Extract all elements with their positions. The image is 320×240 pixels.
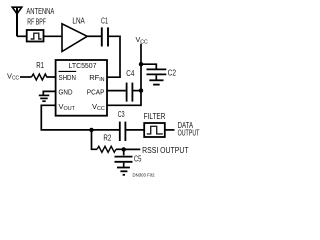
- svg-text:RFIN: RFIN: [89, 73, 104, 83]
- svg-text:C1: C1: [101, 17, 108, 26]
- svg-text:VOUT: VOUT: [59, 102, 76, 112]
- ground (GND pin): [39, 95, 50, 101]
- ground (C2): [149, 80, 163, 84]
- label DATA OUTPUT: [178, 121, 200, 137]
- wire PCAP to C4: [107, 90, 126, 92]
- svg-text:R2: R2: [103, 133, 111, 142]
- wire antenna to BPF: [17, 35, 27, 37]
- RF BPF box: [27, 30, 44, 42]
- svg-text:C4: C4: [126, 69, 134, 78]
- svg-text:C3: C3: [118, 110, 125, 119]
- svg-text:C5: C5: [134, 154, 142, 163]
- wire VOUT down to bottom rail: [41, 105, 91, 130]
- resistor R2: [97, 146, 116, 152]
- capacitor C4: [127, 83, 133, 102]
- node VCC/C2 junction: [139, 62, 143, 66]
- pulse symbol in FILTER: [147, 126, 163, 134]
- wire VCC to R1: [20, 76, 32, 78]
- svg-text:C2: C2: [168, 68, 177, 77]
- svg-text:R1: R1: [36, 61, 44, 70]
- node C4/VCC junction: [139, 88, 143, 92]
- resistor R1: [32, 74, 47, 80]
- svg-text:ANTENNA: ANTENNA: [26, 7, 54, 16]
- op-amp LNA: [62, 24, 87, 52]
- capacitor C2: [147, 69, 167, 74]
- svg-text:PCAP: PCAP: [87, 87, 105, 96]
- node VOUT junction: [89, 128, 93, 132]
- capacitor C5: [115, 157, 133, 162]
- wire BPF to LNA: [44, 35, 63, 37]
- wire R1 to SHDN: [46, 76, 55, 78]
- pin SHDN (overbar): [59, 71, 77, 82]
- wire junction down to R2: [92, 130, 98, 149]
- wire LNA to C1: [87, 35, 101, 37]
- svg-text:SHDN: SHDN: [59, 73, 76, 82]
- wire GND pin to ground: [43, 91, 55, 94]
- svg-text:RF BPF: RF BPF: [27, 18, 46, 27]
- wire C1 to RFIN: [107, 36, 120, 77]
- wire C4 to VCC rail: [132, 90, 141, 92]
- svg-text:VCC: VCC: [92, 102, 105, 112]
- wire junction to C2: [141, 64, 156, 68]
- FILTER box: [144, 123, 165, 137]
- svg-text:LTC5507: LTC5507: [69, 61, 97, 70]
- svg-text:VCC: VCC: [7, 71, 20, 81]
- svg-text:GND: GND: [59, 87, 73, 96]
- IC U1 LTC5507 box: [56, 60, 107, 116]
- ground (C5): [117, 168, 130, 175]
- wire RSSI stub: [124, 148, 141, 150]
- wire R2 to RSSI node: [116, 148, 124, 150]
- node RSSI junction: [122, 147, 126, 151]
- svg-text:DN303 F02: DN303 F02: [133, 173, 155, 178]
- wire C5 to ground: [123, 163, 125, 167]
- wire VCC vertical rail: [107, 44, 141, 106]
- svg-text:LNA: LNA: [72, 17, 85, 26]
- svg-text:RSSI OUTPUT: RSSI OUTPUT: [142, 146, 189, 155]
- wire C3 to FILTER: [125, 129, 144, 131]
- capacitor C1: [102, 27, 108, 46]
- pulse symbol in BPF: [31, 33, 42, 39]
- capacitor C3: [120, 122, 126, 141]
- svg-text:FILTER: FILTER: [144, 112, 166, 121]
- wire C2 to ground: [155, 75, 157, 79]
- wire node to C5: [123, 149, 125, 155]
- wire FILTER to DATA OUTPUT: [165, 129, 175, 131]
- svg-text:OUTPUT: OUTPUT: [178, 128, 200, 137]
- wire rail to C3: [92, 129, 120, 131]
- antenna: [12, 7, 21, 37]
